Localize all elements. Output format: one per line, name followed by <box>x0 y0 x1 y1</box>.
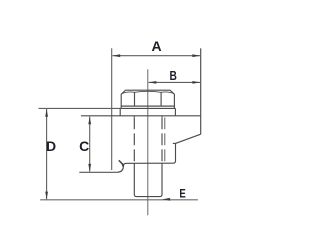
svg-text:D: D <box>46 138 56 154</box>
svg-text:C: C <box>79 138 89 154</box>
svg-text:A: A <box>152 38 162 54</box>
svg-text:B: B <box>170 70 177 83</box>
svg-text:E: E <box>179 187 185 200</box>
